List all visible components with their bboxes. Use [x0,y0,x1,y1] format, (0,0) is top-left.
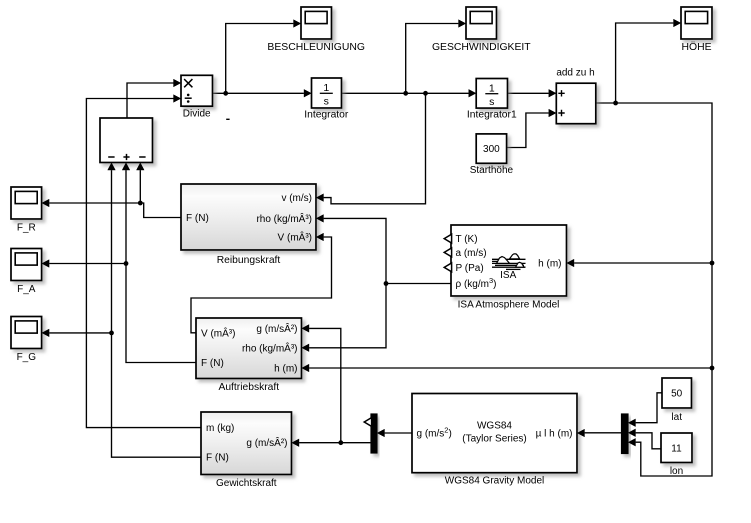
wire Starthoehe to add zu h [507,113,549,148]
svg-text:Starthöhe: Starthöhe [470,165,514,176]
port chevron ISA a [444,248,451,257]
block Integrator1 [467,79,517,121]
node h to HOEHE [613,101,618,106]
svg-text:BESCHLEUNIGUNG: BESCHLEUNIGUNG [267,42,365,53]
scope HOEHE [681,7,712,53]
svg-text:V (mÂ³): V (mÂ³) [278,231,312,244]
node F_G branch [109,331,114,336]
wire h into Auftriebskraft [309,367,712,369]
svg-text:1: 1 [489,83,495,95]
svg-text:v (m/s): v (m/s) [281,193,312,204]
svg-text:lat: lat [671,412,682,423]
svg-text:T (K): T (K) [456,234,478,245]
svg-text:m (kg): m (kg) [206,423,234,434]
svg-text:(Taylor Series): (Taylor Series) [462,434,526,445]
node velocity branch 1 [403,91,408,96]
wire lon 11 to Mux [636,433,661,449]
svg-text:F_A: F_A [17,284,36,295]
scope F_R [11,187,42,234]
svg-text:F_G: F_G [17,352,37,363]
icon ISA atmosphere [492,259,526,269]
svg-text:rho (kg/mÂ³): rho (kg/mÂ³) [242,341,298,354]
wire F_G from Gewichtskraft to sum input [112,170,202,457]
subsystem Reibungskraft [181,184,316,266]
wire lat 50 to Mux [636,393,662,423]
block Integrator [304,78,349,121]
svg-text:s: s [489,96,494,108]
svg-text:WGS84: WGS84 [477,421,512,432]
svg-text:1: 1 [323,82,329,94]
wire rho to Auftriebskraft [309,284,386,348]
wire rho from ISA [386,283,451,285]
node acceleration branch [223,91,228,96]
node velocity branch 2 [423,91,428,96]
wire g to Auftriebskraft [309,328,341,442]
node F_R branch [138,201,143,206]
wire h into ISA Atmosphere Model [574,262,712,264]
wire Divide output to Integrator [213,92,304,94]
svg-text:Divide: Divide [183,109,211,120]
wire F_R from Reibungskraft to scope [49,203,181,218]
scope BESCHLEUNIGUNG [267,7,365,53]
svg-text:ISA: ISA [500,270,516,281]
wire branch to HOEHE scope [616,23,674,103]
svg-text:ISA Atmosphere Model: ISA Atmosphere Model [458,299,560,310]
svg-text:V (mÂ³): V (mÂ³) [201,326,235,339]
svg-text:300: 300 [483,144,500,155]
port chevron ISA P [444,263,451,272]
svg-text:Integrator: Integrator [304,110,349,121]
wire m (kg) from Gewichtskraft to Divide divisor input [86,99,201,428]
svg-text:add zu h: add zu h [556,67,594,78]
wire Integrator output to Integrator1 [342,92,469,94]
block Divide [181,75,213,119]
node F_A branch [124,261,129,266]
svg-text:g (m/sÂ²): g (m/sÂ²) [246,436,287,449]
svg-text:F (N): F (N) [206,453,229,464]
svg-text:WGS84 Gravity Model: WGS84 Gravity Model [445,476,544,487]
wire branch to BESCHLEUNIGUNG scope [226,24,294,94]
wire F_A from Auftriebskraft to sum input [126,170,196,362]
svg-text:F (N): F (N) [186,213,209,224]
wire Demux out to Gewichtskraft g [299,442,371,444]
wire F_A to scope [49,263,126,265]
svg-text:50: 50 [671,389,683,400]
svg-text:Auftriebskraft: Auftriebskraft [218,382,279,393]
wire sum output to Divide x input [127,83,174,118]
block add zu h [556,67,596,123]
node h to Auftriebskraft [710,366,715,371]
svg-text:rho (kg/mÂ³): rho (kg/mÂ³) [256,212,312,225]
constant lat 50 [662,378,692,423]
svg-text:s: s [324,96,329,108]
subsystem Auftriebskraft [196,318,302,393]
scope F_A [11,249,42,296]
wire V from Auftriebskraft to Reibungskraft [191,237,332,333]
svg-text:Reibungskraft: Reibungskraft [217,255,281,266]
mux (lat,lon,h) [622,414,629,454]
block ISA Atmosphere Model [451,225,567,310]
svg-text:F_R: F_R [17,223,36,234]
svg-text:g (m/sÂ²): g (m/sÂ²) [256,322,297,335]
scope GESCHWINDIGKEIT [432,7,531,53]
svg-text:h (m): h (m) [538,259,561,270]
sum block (- + -) [100,118,153,163]
svg-text:11: 11 [671,444,682,455]
wire add zu h output / h feedback loop [596,103,712,476]
wire branch to GESCHWINDIGKEIT scope [406,24,459,94]
wire Mux output to WGS84 input [585,432,622,434]
svg-text:Gewichtskraft: Gewichtskraft [216,478,277,489]
constant lon 11 [661,433,692,477]
svg-text:HÖHE: HÖHE [681,41,711,53]
svg-text:Integrator1: Integrator1 [467,109,517,120]
demux gravity [371,414,377,453]
svg-text:h (m): h (m) [274,363,297,374]
constant Starthoehe 300 [470,134,514,176]
wire rho to Reibungskraft [324,218,386,283]
wire WGS84 g output to Demux [385,432,412,434]
svg-text:GESCHWINDIGKEIT: GESCHWINDIGKEIT [432,42,531,53]
scope F_G [11,317,42,364]
subsystem Gewichtskraft [201,412,292,489]
wire v feedback to Reibungskraft [324,93,426,204]
node h to ISA [710,261,715,266]
node rho branch [384,281,389,286]
svg-text:F (N): F (N) [201,358,224,369]
wire F_G to scope [49,332,111,334]
node g branch [338,440,343,445]
svg-text:a (m/s): a (m/s) [456,248,487,259]
svg-text:µ l h (m): µ l h (m) [536,429,573,440]
svg-text:lon: lon [670,466,683,477]
stray annotation dash [226,118,229,120]
block WGS84 Gravity Model [412,394,577,487]
wire Integrator1 output to add zu h [508,92,549,94]
port chevron ISA T [444,234,451,243]
wire F_R to sum input [139,170,141,203]
arrowheads at block input ports [293,20,301,28]
demux unconnected port chevron [364,418,371,427]
svg-text:P (Pa): P (Pa) [456,263,484,274]
